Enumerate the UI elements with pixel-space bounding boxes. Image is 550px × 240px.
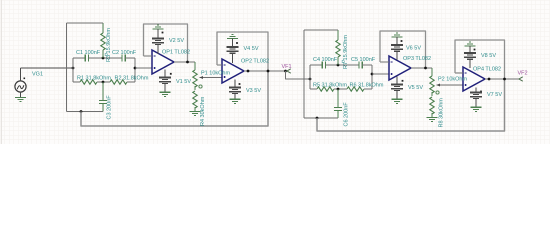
label OP4 bbox=[473, 67, 501, 73]
resistor R4 bbox=[193, 91, 197, 112]
label OP1 bbox=[162, 50, 190, 56]
ground above V6 bbox=[392, 33, 403, 44]
label C3 bbox=[107, 95, 113, 120]
label R1 bbox=[77, 76, 111, 82]
wire P2 wiper to OP4 +in bbox=[441, 84, 464, 86]
wire P1 wiper to OP2 +in bbox=[204, 77, 223, 79]
svg-text:VF1: VF1 bbox=[282, 64, 292, 70]
wire OP2 feedback loop bbox=[217, 32, 268, 71]
resistor R2 bbox=[110, 80, 127, 84]
label R6 bbox=[350, 83, 384, 89]
battery V3 bbox=[229, 80, 241, 100]
label C1 bbox=[76, 50, 101, 56]
svg-text:OP1 TL082: OP1 TL082 bbox=[162, 50, 190, 56]
wire twin-T outer loop stage1 bbox=[67, 23, 104, 112]
battery V1 bbox=[159, 70, 172, 93]
label V2 bbox=[169, 38, 184, 44]
label VG1 bbox=[32, 72, 43, 78]
label R2 bbox=[115, 76, 149, 82]
resistor R3 bbox=[101, 23, 105, 58]
wire C1 row left bbox=[73, 57, 85, 59]
terminal VF2 bbox=[519, 77, 523, 81]
wire OP4 output bbox=[485, 78, 519, 81]
svg-text:C2 100nF: C2 100nF bbox=[112, 50, 137, 56]
node label D2 bbox=[342, 59, 346, 64]
ground below V5 bbox=[392, 99, 403, 103]
svg-text:R5 31.8kOhm: R5 31.8kOhm bbox=[313, 83, 347, 89]
wire bootstrap stage1 bbox=[81, 72, 268, 127]
label R8 bbox=[439, 98, 445, 128]
svg-text:OP3 TL082: OP3 TL082 bbox=[403, 56, 431, 62]
ground below V3 bbox=[230, 99, 241, 103]
label C5 bbox=[351, 57, 376, 63]
label R4 bbox=[200, 96, 206, 126]
svg-text:C3 200nF: C3 200nF bbox=[107, 95, 113, 120]
svg-text:C1 100nF: C1 100nF bbox=[76, 50, 101, 56]
wire OP1 -in bbox=[144, 55, 153, 57]
ground above V4 bbox=[227, 35, 238, 47]
label R3 bbox=[106, 28, 112, 62]
wire stage1 input column bbox=[72, 58, 74, 82]
label VF1 bbox=[282, 64, 292, 70]
ground below R4 bbox=[190, 112, 201, 116]
label V1 bbox=[176, 79, 191, 85]
node VF1 bbox=[284, 70, 287, 73]
wire C5 to out column bbox=[362, 64, 372, 66]
svg-text:C5 100nF: C5 100nF bbox=[351, 57, 376, 63]
label OP2 bbox=[241, 59, 269, 65]
potentiometer P1 bbox=[193, 62, 204, 90]
wire OP2 -in bbox=[217, 64, 222, 66]
wire C1-C2 bbox=[89, 57, 123, 60]
svg-text:VF2: VF2 bbox=[518, 71, 528, 77]
label P2 bbox=[438, 77, 467, 83]
label R5 bbox=[313, 83, 347, 89]
wire OP4 feedback loop bbox=[455, 40, 505, 79]
label V5 bbox=[408, 85, 423, 91]
label V7 bbox=[487, 92, 502, 98]
resistor R7 bbox=[336, 30, 340, 65]
resistor R1 bbox=[80, 80, 97, 84]
ground below VG1 bbox=[15, 92, 26, 101]
wire twin-T outer loop stage2 bbox=[304, 30, 338, 118]
svg-text:R3 15.9kOhm: R3 15.9kOhm bbox=[106, 28, 112, 62]
svg-text:V1 5V: V1 5V bbox=[176, 79, 191, 85]
potentiometer P2 bbox=[430, 68, 441, 96]
wire bootstrap stage2 bbox=[317, 80, 505, 132]
node label D bbox=[105, 52, 109, 57]
label C4 bbox=[313, 57, 338, 63]
svg-text:R6 31.8kOhm: R6 31.8kOhm bbox=[350, 83, 384, 89]
svg-text:R2 31.8kOhm: R2 31.8kOhm bbox=[115, 76, 149, 82]
ground below V7 bbox=[471, 107, 482, 111]
terminal VF1 bbox=[287, 69, 291, 73]
svg-text:C6 200nF: C6 200nF bbox=[344, 102, 350, 127]
label P1 bbox=[201, 71, 230, 77]
wire OP3 output bbox=[411, 67, 432, 70]
op-amp OP2 bbox=[222, 59, 244, 83]
wire stage1 out column bbox=[134, 58, 137, 82]
wire C4 row left bbox=[310, 64, 322, 66]
junction bootstrap stage2 bbox=[316, 117, 319, 120]
wire OP3 feedback loop bbox=[380, 31, 426, 68]
label OP3 bbox=[403, 56, 431, 62]
canvas left edge bbox=[1, 0, 3, 144]
wire C4-C5 bbox=[326, 64, 360, 67]
svg-text:OP2 TL082: OP2 TL082 bbox=[241, 59, 269, 65]
wire VG1 to node IN bbox=[21, 67, 75, 77]
svg-text:R8 30kOhm: R8 30kOhm bbox=[439, 98, 445, 128]
wire C2 to out column bbox=[125, 57, 135, 59]
svg-text:R7 15.9kOhm: R7 15.9kOhm bbox=[343, 35, 349, 69]
op-amp OP1 bbox=[152, 50, 174, 74]
ground below R8 bbox=[427, 118, 438, 122]
label V8 bbox=[481, 53, 496, 59]
wire OP1 feedback loop bbox=[144, 24, 188, 62]
svg-text:V2 5V: V2 5V bbox=[169, 38, 184, 44]
capacitor C1 bbox=[85, 54, 88, 61]
svg-text:V6 5V: V6 5V bbox=[406, 46, 421, 52]
battery V8 bbox=[464, 49, 476, 68]
resistor R8 bbox=[430, 97, 434, 118]
label V6 bbox=[406, 46, 421, 52]
junction bootstrap stage1 bbox=[80, 110, 83, 113]
op-amp OP3 bbox=[389, 56, 411, 80]
resistor R6 bbox=[347, 87, 364, 91]
capacitor C5 bbox=[359, 61, 362, 68]
svg-text:V8 5V: V8 5V bbox=[481, 53, 496, 59]
wire VF1 to stage2 input bbox=[286, 71, 312, 80]
svg-text:V4 5V: V4 5V bbox=[244, 46, 259, 52]
battery V6 bbox=[391, 40, 403, 60]
wire to OP1 +in bbox=[135, 67, 152, 69]
wire OP2 output bbox=[244, 70, 286, 73]
voltage source VG1 bbox=[15, 77, 26, 92]
battery V2 bbox=[152, 32, 164, 54]
ground above V8 bbox=[465, 42, 476, 52]
svg-text:V7 5V: V7 5V bbox=[487, 92, 502, 98]
wire R1-R2 bbox=[97, 81, 110, 84]
label C2 bbox=[112, 50, 137, 56]
svg-text:VG1: VG1 bbox=[32, 72, 43, 78]
svg-text:R4 30kOhm: R4 30kOhm bbox=[200, 96, 206, 126]
wire R2 to out column bbox=[127, 81, 135, 83]
label V4 bbox=[244, 46, 259, 52]
battery V4 bbox=[226, 42, 238, 63]
label C6 bbox=[344, 102, 350, 127]
wire OP4 -in bbox=[455, 72, 463, 74]
svg-text:R1 31.8kOhm: R1 31.8kOhm bbox=[77, 76, 111, 82]
wire to OP3 +in bbox=[372, 73, 389, 75]
svg-text:OP4 TL082: OP4 TL082 bbox=[473, 67, 501, 73]
label R7 bbox=[343, 35, 349, 69]
battery V7 bbox=[470, 88, 482, 108]
battery V5 bbox=[391, 77, 404, 100]
capacitor C6 bbox=[334, 89, 342, 118]
label V3 bbox=[246, 88, 261, 94]
wire R5 row left bbox=[310, 88, 317, 90]
wire stage2 input column bbox=[309, 65, 311, 89]
wire R5-R6 bbox=[334, 88, 347, 91]
svg-text:V5 5V: V5 5V bbox=[408, 85, 423, 91]
wire stage2 out column bbox=[371, 65, 374, 89]
wire R1 row left bbox=[73, 81, 80, 83]
wire R6 to out column bbox=[364, 88, 372, 90]
wire OP1 output bbox=[174, 61, 195, 64]
capacitor C2 bbox=[122, 54, 125, 61]
resistor R5 bbox=[317, 87, 334, 91]
capacitor C4 bbox=[322, 61, 325, 68]
svg-text:P2 10kOhm: P2 10kOhm bbox=[438, 77, 467, 83]
svg-text:P1 10kOhm: P1 10kOhm bbox=[201, 71, 230, 77]
svg-text:V3 5V: V3 5V bbox=[246, 88, 261, 94]
op-amp OP4 bbox=[463, 67, 485, 91]
ground above V2 bbox=[153, 25, 164, 37]
capacitor C3 bbox=[99, 82, 107, 112]
ground below V1 bbox=[160, 92, 171, 96]
svg-text:C4 100nF: C4 100nF bbox=[313, 57, 338, 63]
label VF2 bbox=[518, 71, 528, 77]
wire OP3 -in bbox=[380, 61, 389, 63]
